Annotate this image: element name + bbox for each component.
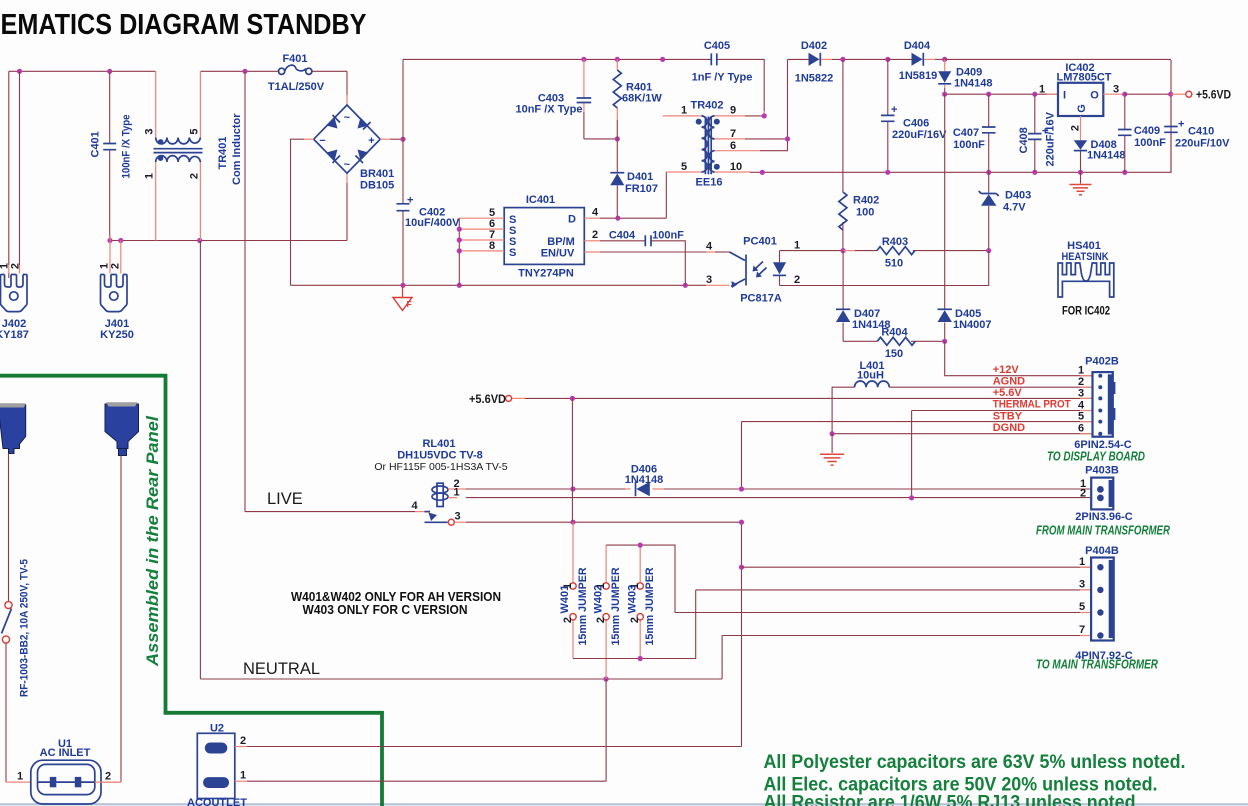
bottom frame edge line bbox=[0, 803, 1248, 805]
svg-text:W403: W403 bbox=[627, 585, 639, 614]
svg-text:3: 3 bbox=[706, 274, 712, 286]
svg-text:D402: D402 bbox=[801, 40, 827, 52]
svg-text:1N4148: 1N4148 bbox=[1087, 150, 1126, 162]
svg-text:2: 2 bbox=[1070, 125, 1082, 131]
svg-text:C408: C408 bbox=[1018, 127, 1030, 153]
connector P404B 4PIN7.92-C bbox=[1036, 545, 1158, 672]
primary winding pins 1-5 bbox=[663, 116, 702, 172]
note W401&W402 versions bbox=[291, 589, 501, 617]
coil bbox=[437, 483, 443, 506]
svg-text:1: 1 bbox=[144, 173, 156, 179]
svg-text:PC817A: PC817A bbox=[740, 293, 782, 305]
diode D408 1N4148 and IC402 ground pin bbox=[1070, 116, 1126, 172]
inductor L401 10uH bbox=[832, 360, 1092, 434]
svg-text:1: 1 bbox=[794, 240, 800, 252]
svg-text:C407: C407 bbox=[953, 127, 979, 139]
diode top-right edge bbox=[358, 118, 369, 129]
svg-text:KY187: KY187 bbox=[0, 329, 29, 341]
wire: THERMAL PROT row bbox=[912, 411, 1093, 498]
capacitor C405 1nF/Y Type bbox=[692, 40, 753, 84]
svg-text:1: 1 bbox=[17, 771, 23, 783]
svg-text:100: 100 bbox=[856, 207, 874, 219]
wire: J401 pin1 column bbox=[110, 235, 121, 274]
svg-text:7: 7 bbox=[730, 128, 736, 140]
svg-text:+: + bbox=[1178, 119, 1184, 131]
wire: LIVE column from AC bus bbox=[245, 71, 415, 511]
svg-text:LM7805CT: LM7805CT bbox=[1056, 72, 1111, 84]
svg-text:C409: C409 bbox=[1134, 125, 1160, 137]
wire: +5.6V unregulated row (IC402 input rail) bbox=[942, 92, 1058, 97]
wire: relay pin2 / STBY / D406 row bbox=[457, 486, 1091, 491]
svg-text:3: 3 bbox=[1079, 579, 1085, 591]
svg-text:68K/1W: 68K/1W bbox=[622, 93, 662, 105]
light arrows bbox=[755, 262, 767, 276]
svg-text:W403 ONLY FOR C VERSION: W403 ONLY FOR C VERSION bbox=[303, 602, 468, 617]
svg-text:2: 2 bbox=[1080, 488, 1086, 500]
jumper W401 15mm JUMPER bbox=[559, 522, 589, 658]
diode D407 1N4148 bbox=[836, 251, 891, 342]
svg-text:NEUTRAL: NEUTRAL bbox=[243, 660, 320, 678]
svg-text:Or HF115F 005-1HS3A TV-5: Or HF115F 005-1HS3A TV-5 bbox=[374, 461, 507, 473]
svg-text:100nF: 100nF bbox=[652, 230, 684, 242]
wire: P404B pin1 row bbox=[742, 566, 1092, 568]
svg-text:1: 1 bbox=[453, 487, 459, 499]
wire: primary ground bus bbox=[291, 283, 730, 288]
secondary winding 6-10 bbox=[709, 151, 714, 172]
svg-text:150: 150 bbox=[885, 348, 903, 360]
svg-text:+: + bbox=[368, 135, 374, 147]
svg-text:C401: C401 bbox=[90, 131, 102, 157]
IC401 TNY274PN box bbox=[504, 194, 584, 280]
svg-text:1: 1 bbox=[681, 105, 687, 117]
relay RL401 bbox=[374, 438, 507, 525]
wire: J402 pin1 column down to switch and U1 bbox=[8, 71, 10, 278]
svg-text:F401: F401 bbox=[282, 53, 307, 65]
connector J402 KY187 spade terminal bbox=[0, 263, 29, 341]
wire: J401 plug to U1 pin2 bbox=[101, 456, 121, 783]
svg-text:1: 1 bbox=[1039, 84, 1045, 96]
svg-text:1N4148: 1N4148 bbox=[954, 78, 993, 90]
wire: lower AC bus (NEUTRAL side) bbox=[107, 173, 347, 243]
svg-text:2: 2 bbox=[592, 229, 598, 241]
connector P403B 2PIN3.96-C bbox=[1036, 465, 1170, 538]
svg-text:4: 4 bbox=[592, 207, 599, 219]
svg-text:DB105: DB105 bbox=[360, 180, 394, 192]
earth ground below D408 bbox=[1070, 172, 1092, 194]
svg-text:HEATSINK: HEATSINK bbox=[1062, 251, 1109, 263]
svg-text:220uF/16V: 220uF/16V bbox=[892, 129, 947, 141]
svg-text:KY250: KY250 bbox=[100, 329, 134, 341]
bridge rectifier BR401 DB105 bbox=[314, 105, 395, 192]
svg-text:7: 7 bbox=[1079, 624, 1085, 636]
svg-text:5: 5 bbox=[681, 161, 687, 173]
svg-text:3: 3 bbox=[144, 128, 156, 134]
svg-text:1N4148: 1N4148 bbox=[625, 474, 664, 486]
svg-text:R403: R403 bbox=[882, 236, 908, 248]
svg-text:All Resistor are 1/6W 5% RJ13: All Resistor are 1/6W 5% RJ13 unless not… bbox=[764, 793, 1136, 806]
capacitor C407 100nF bbox=[953, 94, 996, 172]
svg-text:D403: D403 bbox=[1005, 190, 1031, 202]
svg-text:BR401: BR401 bbox=[360, 168, 394, 180]
svg-text:P404B: P404B bbox=[1085, 545, 1119, 557]
svg-text:F: F bbox=[407, 299, 412, 309]
inductor TR401 common mode choke bbox=[144, 71, 244, 240]
svg-text:THERMAL PROT: THERMAL PROT bbox=[993, 399, 1071, 411]
svg-text:4: 4 bbox=[411, 500, 418, 512]
svg-text:2: 2 bbox=[240, 735, 246, 747]
svg-text:EE16: EE16 bbox=[696, 177, 723, 189]
svg-text:P402B: P402B bbox=[1085, 356, 1119, 368]
core bbox=[705, 117, 711, 175]
zener D403 4.7V bbox=[979, 172, 1032, 250]
svg-text:C405: C405 bbox=[704, 40, 730, 52]
svg-text:TNY274PN: TNY274PN bbox=[518, 268, 574, 280]
svg-text:Assembled in the Rear Panel: Assembled in the Rear Panel bbox=[143, 415, 162, 667]
svg-text:IC401: IC401 bbox=[526, 194, 555, 206]
diode top-left edge bbox=[327, 118, 338, 129]
wire: top AC bus (LIVE side) bbox=[9, 69, 347, 105]
svg-text:+5.6VD: +5.6VD bbox=[1196, 88, 1231, 102]
wire: pins 7-6 junction to D402 bbox=[715, 59, 809, 150]
net labels P402B bbox=[993, 364, 1071, 434]
svg-text:2: 2 bbox=[188, 173, 200, 179]
svg-text:5: 5 bbox=[1078, 411, 1084, 423]
svg-text:+5.6V: +5.6V bbox=[993, 387, 1023, 399]
jumper W403 15mm JUMPER bbox=[627, 545, 656, 658]
svg-text:AC INLET: AC INLET bbox=[40, 747, 91, 759]
wire: top rail right segment to +5.6VD bbox=[945, 58, 1171, 60]
svg-text:6: 6 bbox=[1078, 423, 1084, 435]
wire: PC401 pin2 row to D403 bbox=[780, 251, 989, 286]
capacitor C404 100nF (BP/M) bbox=[584, 229, 685, 285]
wire: +310V rail riser and C402 column bbox=[402, 59, 404, 285]
svg-text:220uF/16V: 220uF/16V bbox=[1045, 111, 1057, 166]
capacitor C408 220uF/16V bbox=[1018, 94, 1057, 172]
svg-text:1N5822: 1N5822 bbox=[795, 73, 834, 85]
svg-text:1: 1 bbox=[1079, 556, 1085, 568]
svg-text:5: 5 bbox=[1079, 601, 1085, 613]
svg-text:~: ~ bbox=[344, 112, 351, 124]
svg-text:100nF: 100nF bbox=[953, 139, 985, 151]
capacitor C401 100nF/X Type bbox=[90, 71, 133, 240]
wire: U2 pin2 row bbox=[235, 735, 742, 747]
svg-text:Com Inductor: Com Inductor bbox=[231, 113, 243, 185]
wire: jumper top rail to P404B pin5 bbox=[606, 543, 1091, 613]
wire: relay pin3 row and column to P404B pin1 / ACOUTLET bbox=[466, 520, 744, 747]
switch RF-1003-BB2 bbox=[2, 559, 31, 697]
connector J401 KY250 spade terminal bbox=[99, 263, 134, 341]
resistor R404 150 bbox=[843, 327, 947, 361]
wire: bridge plus to +310V node bbox=[380, 137, 405, 142]
wire: jumper bottom rail to P404B pin3 bbox=[573, 590, 1091, 661]
svg-text:DH1U5VDC TV-8: DH1U5VDC TV-8 bbox=[397, 450, 483, 462]
svg-text:P403B: P403B bbox=[1085, 465, 1119, 477]
wire: bridge minus to ground bus bbox=[304, 138, 314, 140]
svg-text:FROM MAIN TRANSFORMER: FROM MAIN TRANSFORMER bbox=[1036, 523, 1170, 538]
svg-text:R404: R404 bbox=[881, 327, 908, 339]
svg-text:RL401: RL401 bbox=[422, 438, 455, 450]
svg-text:W402: W402 bbox=[593, 585, 605, 614]
wire: pin9 row to +310V rail bbox=[715, 113, 767, 118]
capacitor C410 220uF/10V bbox=[1164, 94, 1230, 172]
wire: +12V to P402B pin1 bbox=[945, 341, 1093, 375]
wire: NEUTRAL column from AC bus to bottom bus bbox=[200, 241, 722, 682]
svg-text:510: 510 bbox=[885, 258, 903, 270]
svg-text:1: 1 bbox=[1078, 365, 1084, 377]
diode D401 FR107 bbox=[610, 139, 658, 218]
wire: STBY row bbox=[742, 422, 1093, 489]
capacitor C409 100nF bbox=[1118, 92, 1166, 173]
svg-text:100nF /X Type: 100nF /X Type bbox=[121, 115, 133, 179]
svg-text:S: S bbox=[509, 247, 516, 259]
svg-text:LIVE: LIVE bbox=[267, 490, 303, 508]
svg-text:220uF/10V: 220uF/10V bbox=[1175, 138, 1230, 150]
svg-text:10nF /X Type: 10nF /X Type bbox=[515, 104, 582, 116]
svg-text:W401: W401 bbox=[559, 585, 571, 614]
svg-text:1: 1 bbox=[240, 770, 246, 782]
wire: relay pin1 / THERMAL row to P403B pin2 bbox=[466, 495, 1091, 500]
green notes bbox=[764, 752, 1186, 806]
jumper W402 15mm JUMPER bbox=[593, 545, 623, 679]
svg-text:+: + bbox=[407, 195, 413, 207]
heatsink HS401 bbox=[1058, 240, 1114, 318]
phototransistor bbox=[715, 251, 730, 253]
diode D402 1N5822 bbox=[795, 40, 888, 85]
terminal +5.6VD (right) bbox=[1186, 88, 1231, 102]
svg-text:2: 2 bbox=[562, 617, 574, 623]
svg-text:10uH: 10uH bbox=[857, 370, 884, 382]
optocoupler PC401 PC817A bbox=[584, 236, 800, 305]
svg-text:EN/UV: EN/UV bbox=[541, 248, 575, 260]
diode D406 1N4148 bbox=[625, 464, 664, 497]
svg-text:All Polyester capacitors are 6: All Polyester capacitors are 63V 5% unle… bbox=[764, 752, 1186, 773]
svg-text:R402: R402 bbox=[853, 195, 879, 207]
svg-text:4: 4 bbox=[706, 241, 713, 253]
svg-text:10uF/400V: 10uF/400V bbox=[405, 217, 460, 229]
svg-text:+12V: +12V bbox=[993, 364, 1020, 376]
svg-text:3: 3 bbox=[1078, 388, 1084, 400]
svg-text:T1AL/250V: T1AL/250V bbox=[268, 81, 325, 93]
wire: IC401 drain to D401/TR402 pin5 bbox=[584, 172, 666, 221]
svg-text:RF-1003-BB2, 10A 250V, TV-5: RF-1003-BB2, 10A 250V, TV-5 bbox=[19, 559, 31, 697]
svg-text:2: 2 bbox=[1078, 376, 1084, 388]
svg-text:FOR IC402: FOR IC402 bbox=[1062, 304, 1110, 318]
diode D405 1N4007 bbox=[938, 94, 992, 341]
svg-text:C410: C410 bbox=[1188, 126, 1214, 138]
svg-text:8: 8 bbox=[489, 240, 495, 252]
svg-text:1nF /Y Type: 1nF /Y Type bbox=[692, 72, 753, 84]
resistor R402 100 bbox=[839, 59, 879, 250]
LED bbox=[779, 251, 781, 286]
ground F symbol bbox=[393, 285, 412, 310]
svg-text:PC401: PC401 bbox=[743, 236, 777, 248]
svg-text:TR402: TR402 bbox=[690, 100, 723, 112]
svg-text:C404: C404 bbox=[609, 230, 636, 242]
svg-text:2: 2 bbox=[595, 617, 607, 623]
diode D409 1N4148 bbox=[938, 59, 992, 94]
svg-text:C406: C406 bbox=[903, 118, 929, 130]
wire: J402 pin2 column bbox=[9, 71, 20, 273]
svg-text:2: 2 bbox=[109, 263, 121, 269]
svg-text:+5.6VD: +5.6VD bbox=[469, 392, 506, 406]
svg-text:2: 2 bbox=[9, 263, 21, 269]
wire: secondary ground rail (pin10 row) bbox=[715, 60, 1172, 175]
svg-text:BP/M: BP/M bbox=[547, 236, 575, 248]
svg-text:−: − bbox=[319, 135, 325, 147]
svg-text:4.7V: 4.7V bbox=[1003, 202, 1026, 214]
capacitor C403 10nF/X Type bbox=[515, 59, 619, 141]
capacitor C406 220uF/16V bbox=[881, 59, 947, 172]
AC inlet U1 bbox=[31, 738, 121, 804]
svg-text:100nF: 100nF bbox=[1134, 137, 1166, 149]
svg-text:10: 10 bbox=[730, 161, 742, 173]
rear panel green boundary wire bbox=[0, 376, 382, 806]
svg-text:2: 2 bbox=[629, 617, 641, 623]
svg-text:~: ~ bbox=[344, 159, 351, 171]
wire: DGND row and earth ground bbox=[820, 431, 1093, 465]
svg-text:1N4007: 1N4007 bbox=[953, 319, 992, 331]
svg-text:15mm JUMPER: 15mm JUMPER bbox=[610, 567, 622, 645]
wire: +5.6V row to P402B pin3 bbox=[512, 396, 1093, 401]
diode bottom-left edge bbox=[327, 150, 338, 161]
wire: NEUTRAL to P404B pin7 row bbox=[722, 635, 1091, 637]
svg-text:O: O bbox=[1090, 90, 1099, 102]
mating plug for J401 (rear panel) bbox=[105, 402, 139, 455]
resistor R401 68K/1W bbox=[613, 59, 662, 138]
svg-text:2: 2 bbox=[794, 274, 800, 286]
diode D404 1N5819 bbox=[885, 40, 947, 82]
AC outlet U2 bbox=[187, 723, 247, 806]
secondary winding 9-7 bbox=[709, 116, 715, 139]
fuse F401 T1AL/250V bbox=[268, 53, 325, 93]
IC401 source pins column bbox=[457, 207, 505, 285]
svg-text:D401: D401 bbox=[627, 171, 653, 183]
svg-text:STBY: STBY bbox=[993, 411, 1023, 423]
svg-text:G: G bbox=[1076, 104, 1088, 113]
wire: J402 plug to switch bbox=[8, 454, 10, 602]
wire: +5.6VD output row bbox=[1125, 92, 1186, 97]
diode bottom-right edge bbox=[358, 150, 369, 161]
svg-text:2PIN3.96-C: 2PIN3.96-C bbox=[1075, 511, 1133, 523]
wire: U2 pin1 row bbox=[235, 679, 606, 782]
IC402 LM7805CT regulator bbox=[1039, 62, 1125, 116]
svg-text:DGND: DGND bbox=[993, 422, 1025, 434]
wire: switch to U1 pin1 bbox=[6, 643, 31, 783]
svg-text:5: 5 bbox=[188, 128, 200, 134]
svg-text:2: 2 bbox=[105, 771, 111, 783]
svg-text:15mm JUMPER: 15mm JUMPER bbox=[644, 567, 656, 645]
connector P402B 6PIN2.54-C bbox=[1047, 356, 1145, 464]
svg-text:D: D bbox=[568, 214, 576, 226]
transformer TR402 EE16 bbox=[663, 100, 742, 189]
svg-text:AGND: AGND bbox=[993, 376, 1025, 388]
mating plug for J402 (rear panel) bbox=[0, 403, 26, 453]
resistor R403 510 bbox=[843, 236, 991, 270]
svg-text:+: + bbox=[891, 104, 897, 116]
svg-text:FR107: FR107 bbox=[625, 183, 658, 195]
svg-text:I: I bbox=[1063, 90, 1066, 102]
wire: PC401 pin1 to R403 node bbox=[780, 248, 846, 253]
svg-text:D404: D404 bbox=[904, 40, 931, 52]
wire: +5.6V column through relay rows to W401 bbox=[571, 398, 573, 522]
svg-text:EMATICS DIAGRAM STANDBY: EMATICS DIAGRAM STANDBY bbox=[1, 9, 367, 41]
svg-text:TR401: TR401 bbox=[217, 136, 229, 169]
terminal +5.6VD (left) bbox=[469, 392, 512, 406]
svg-text:9: 9 bbox=[730, 105, 736, 117]
svg-text:ACOUTLET: ACOUTLET bbox=[187, 797, 247, 806]
capacitor C402 10uF/400V bbox=[397, 195, 461, 230]
svg-text:TO MAIN TRANSFORMER: TO MAIN TRANSFORMER bbox=[1036, 657, 1158, 672]
svg-text:TO DISPLAY BOARD: TO DISPLAY BOARD bbox=[1047, 449, 1145, 464]
svg-text:15mm JUMPER: 15mm JUMPER bbox=[577, 567, 589, 645]
wire: +310V top rail bbox=[403, 57, 764, 116]
svg-text:1N5819: 1N5819 bbox=[899, 70, 938, 82]
svg-text:3: 3 bbox=[454, 511, 460, 523]
